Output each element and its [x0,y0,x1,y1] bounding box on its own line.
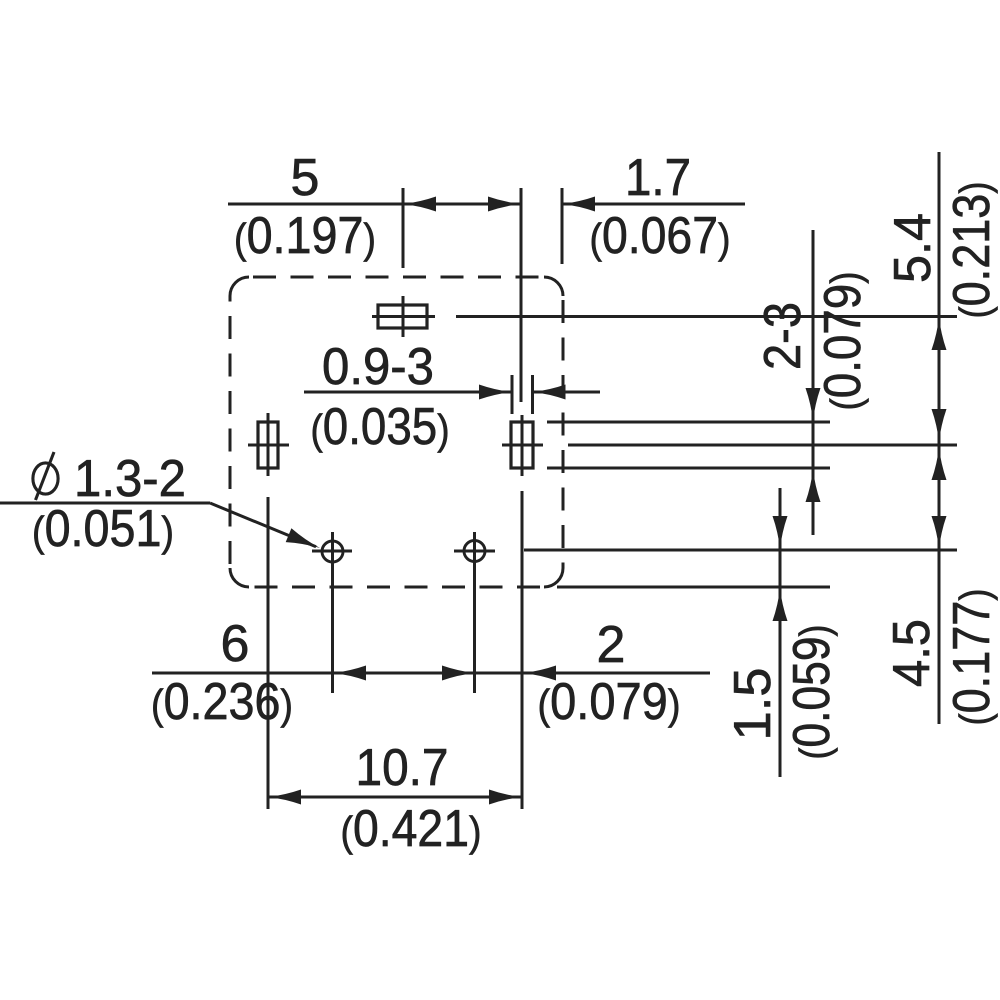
hole right [454,532,495,693]
svg-text:(0.079): (0.079) [538,673,681,731]
arrow 0.9-3 right [533,385,566,400]
leader line slanted to hole [210,503,316,547]
arrow 4.5 top [932,447,947,480]
leader line horizontal (phi 1.3-2) [0,502,210,505]
dim line 1.7 (top right) [562,203,745,206]
extension line package bottom right [557,586,830,589]
extension line right pin column bottom [521,491,524,809]
package outline: solid corner arcs [230,277,563,587]
hole left [312,532,352,693]
extension line right pin centerline [568,444,957,447]
svg-text:(0.177): (0.177) [943,589,1000,726]
arrow leader arrow [286,528,320,548]
arrow 2-3 bottom [806,469,821,502]
arrow 5.4 bottom [932,409,947,442]
dim line 5 (top left) [228,203,521,206]
arrow 10.7 left [268,790,301,805]
extension line package right edge top [561,188,564,264]
arrow 1.5 top [773,516,788,549]
dim line vertical 2-3 x=813 [812,230,815,535]
extension line pin width right edge [531,375,534,414]
pin top (horizontal) [372,296,435,337]
svg-text:(0.059): (0.059) [783,625,841,760]
arrow 2 right [523,666,556,681]
svg-text:4.5: 4.5 [883,619,941,687]
extension line pin width left edge [511,375,514,414]
svg-text:(0.079): (0.079) [814,272,872,411]
extension line holes centerline right [524,549,957,552]
dim line 0.9-3 right segment [533,391,601,394]
dim line 0.9-3 left segment [304,391,512,394]
arrow 2-3 top [806,388,821,421]
phi symbol [33,452,58,500]
svg-text:(0.197): (0.197) [234,207,376,265]
arrow 1.7 arrow [562,197,595,212]
svg-text:6: 6 [221,615,250,673]
svg-text:1.5: 1.5 [724,668,782,741]
pin right (vertical) [502,415,543,476]
extension line top pin center [402,188,405,268]
svg-text:10.7: 10.7 [356,739,449,797]
arrow 1.5 bottom [773,588,788,621]
dim line 6 / 2 (bottom) [152,672,710,675]
arrow 0.9-3 left [479,385,512,400]
svg-text:1.7: 1.7 [625,149,691,207]
svg-text:2: 2 [597,616,626,674]
arrow 5 right arrow [488,197,521,212]
extension line right pin top edge [547,421,830,424]
arrow 5.4 top [932,317,947,350]
extension line right pin column top [520,188,523,402]
arrow 10.7 right [489,790,522,805]
svg-text:(0.421): (0.421) [341,800,482,858]
svg-text:5: 5 [291,149,320,207]
svg-text:5.4: 5.4 [884,213,942,283]
arrow 5 left arrow [403,197,436,212]
package outline: dashed edges [230,277,563,587]
extension line left pin column bottom [267,497,270,809]
svg-text:(0.236): (0.236) [151,673,293,731]
arrow 6 left [333,666,366,681]
svg-text:(0.067): (0.067) [590,207,731,265]
dim line 10.7 [268,796,522,799]
dim line vertical 1.5 x=780 [779,488,782,777]
pin left (vertical) [248,413,289,476]
svg-text:2-3: 2-3 [754,302,812,370]
svg-text:0.9-3: 0.9-3 [322,338,434,396]
svg-text:(0.213): (0.213) [943,182,1000,319]
arrowheads [268,197,947,805]
extension line from top pin to right [456,315,957,318]
dim line vertical right x=939 (5.4 / 4.5) [938,152,941,724]
extension line right pin bottom edge [547,467,830,470]
arrow 6 right [442,666,475,681]
svg-text:(0.035): (0.035) [311,398,450,456]
arrow 4.5 bottom [932,516,947,549]
svg-text:(0.051): (0.051) [32,500,174,558]
